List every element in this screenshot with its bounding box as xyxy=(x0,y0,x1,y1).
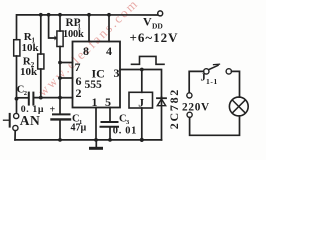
svg-text:2: 2 xyxy=(76,86,82,100)
svg-text:2C782: 2C782 xyxy=(167,88,181,129)
relay coil J xyxy=(141,70,143,93)
svg-text:47µ: 47µ xyxy=(71,123,87,134)
node: bus pin2 wire xyxy=(58,96,62,100)
VDD terminal circle xyxy=(158,11,163,16)
wire: button lead xyxy=(14,131,16,140)
node: C2 tap junction xyxy=(15,97,19,101)
wire: pin6 stub xyxy=(60,77,73,79)
capacitor C2 xyxy=(17,97,28,99)
node: pin3 relay tap xyxy=(140,68,144,72)
lamp xyxy=(229,97,248,116)
wire: R1 to C2 junction xyxy=(16,56,18,113)
resistor R2 xyxy=(40,15,42,54)
potentiometer RP1 wiper xyxy=(49,15,55,38)
capacitor C1 electrolytic xyxy=(59,98,61,114)
svg-text:0. 1µ: 0. 1µ xyxy=(21,104,44,115)
wire: pin3 output xyxy=(120,70,162,98)
svg-text:100k: 100k xyxy=(63,29,84,40)
ground xyxy=(95,140,97,147)
svg-text:+6~12V: +6~12V xyxy=(130,30,179,45)
wire: pin4 stub xyxy=(108,15,110,42)
resistor R1 xyxy=(14,40,20,56)
svg-text:4: 4 xyxy=(106,44,112,58)
svg-text:1-1: 1-1 xyxy=(206,77,218,86)
svg-text:10k: 10k xyxy=(20,66,38,78)
wire: lamp loop left xyxy=(189,71,203,92)
svg-text:J: J xyxy=(201,73,206,84)
push button AN xyxy=(14,113,19,118)
svg-text:AN: AN xyxy=(20,113,41,128)
node: R2 bottom xyxy=(39,96,43,100)
node: C1 bottom xyxy=(58,138,62,142)
wire: pin8 stub xyxy=(88,15,90,42)
svg-text:7: 7 xyxy=(75,60,81,74)
capacitor C3 xyxy=(102,121,118,123)
diode VD 2C782 xyxy=(161,97,163,140)
wire: pin1 stub xyxy=(95,108,97,140)
svg-text:220V: 220V xyxy=(182,102,210,114)
node: bus pin6 xyxy=(58,76,62,80)
wire: top VDD rail xyxy=(17,15,158,40)
node: RP top xyxy=(58,13,62,17)
terminal circle 220V bottom xyxy=(187,112,192,117)
svg-text:0. 01: 0. 01 xyxy=(113,126,137,137)
switch J1-1 xyxy=(204,69,209,74)
wire: pin7 stub xyxy=(60,62,73,64)
node: R2 top xyxy=(39,13,43,17)
node: relay bottom xyxy=(140,138,144,142)
potentiometer RP1 body xyxy=(59,15,61,31)
terminal circle 220V top xyxy=(187,93,192,98)
op-amp U1: IC 555 box xyxy=(73,42,121,108)
wire: pin5 stub xyxy=(109,108,111,122)
svg-text:555: 555 xyxy=(85,79,103,91)
wire: lamp top to switch xyxy=(232,71,240,97)
wire: 220V to lamp bottom xyxy=(190,116,240,135)
waveform pulse xyxy=(132,56,165,64)
node: pin4 top xyxy=(107,13,111,17)
svg-text:2: 2 xyxy=(24,90,27,97)
wire: pin 2 trigger wire xyxy=(35,97,73,99)
svg-text:V: V xyxy=(143,15,152,29)
wire: bottom ground rail xyxy=(15,139,162,141)
svg-text:10k: 10k xyxy=(22,42,40,54)
svg-text:8: 8 xyxy=(83,44,89,58)
svg-text:+: + xyxy=(50,105,56,116)
node: wiper top xyxy=(47,13,51,17)
node: pin8 top xyxy=(87,13,91,17)
node: pin1 bottom xyxy=(94,138,98,142)
svg-text:3: 3 xyxy=(114,66,120,80)
node: bus pin7 xyxy=(58,61,62,65)
node: C3 bottom xyxy=(108,138,112,142)
